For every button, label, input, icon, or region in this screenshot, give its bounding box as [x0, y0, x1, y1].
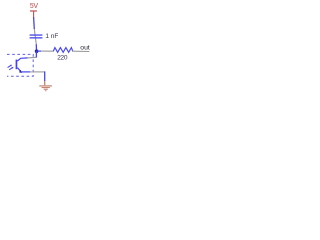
svg-text:out: out — [80, 45, 90, 52]
svg-text:5V: 5V — [30, 3, 39, 10]
svg-text:220: 220 — [57, 55, 68, 62]
svg-text:1 nF: 1 nF — [45, 33, 58, 40]
